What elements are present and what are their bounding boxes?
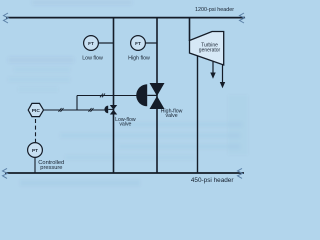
svg-text:High flow: High flow [128,55,150,61]
svg-text:Low flow: Low flow [82,55,103,61]
wire turbine inlet pipe [189,18,191,41]
svg-text:generator: generator [199,48,221,54]
svg-text:FT: FT [88,41,94,46]
svg-text:450-psi header: 450-psi header [191,177,235,184]
pipe-break right end of 450-psi header [238,168,243,178]
signal-break slashes on branch to low-flow valve [89,108,94,112]
svg-text:1200-psi header: 1200-psi header [195,7,234,13]
svg-text:PIC: PIC [32,108,41,114]
svg-text:valve: valve [166,113,178,119]
pressure controller PIC [28,103,43,116]
wire signal tee up [76,96,78,111]
wire 450-psi header line [5,172,244,174]
wire high-flow vertical pipe [156,18,158,173]
pressure transmitter PT [28,143,43,158]
exhaust arrow 2 [220,65,225,89]
signal-break slashes on PIC output [59,108,64,112]
wire low-flow FT tap [98,42,114,44]
svg-text:pressure: pressure [40,165,62,171]
wire low-flow vertical pipe [113,18,115,173]
turbine generator U1 [190,32,224,66]
exhaust arrow 1 [210,62,215,79]
signal-break slashes on branch to high-flow valve [100,94,105,98]
label Low-flow valve [115,117,136,127]
svg-text:FT: FT [135,41,141,46]
label High flow [128,55,150,61]
wire high-flow FT tap [145,42,157,44]
pipe-break left end of 1200-psi header [4,13,9,23]
label Controlled pressure [38,160,64,171]
label 1200-psi header [195,7,234,13]
flow transmitter FT (high flow) [131,36,146,51]
wire PT to 450-psi header [34,157,36,173]
valve actuator (high-flow) [136,84,157,106]
wire dashed PIC to PT [35,119,37,143]
wire 1200-psi header line [6,17,245,19]
wire PIC output signal [44,109,105,111]
svg-text:PT: PT [32,148,38,153]
svg-text:valve: valve [119,121,131,127]
label 450-psi header [191,177,235,184]
pipe-break left end of 450-psi header [3,168,8,178]
label Low flow [82,55,103,61]
control valve (low-flow) [110,105,117,115]
pipe-break right end of 1200-psi header [240,13,245,23]
valve actuator (low-flow) [104,106,113,114]
flow transmitter FT (low flow) [84,36,99,51]
wire turbine exhaust to 450-psi header [197,56,199,173]
wire signal branch to high-flow valve [77,95,137,97]
label High-flow valve [161,108,183,119]
control valve (high-flow) [150,83,165,109]
